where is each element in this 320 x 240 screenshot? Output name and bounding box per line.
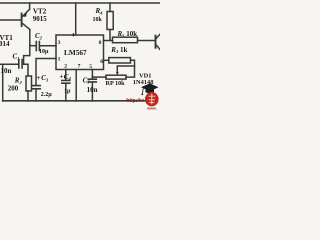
wire C1 input from left edge — [0, 63, 18, 65]
wire C4 to ground — [65, 84, 67, 101]
svg-text:5: 5 — [89, 64, 92, 70]
svg-text:2: 2 — [64, 64, 67, 70]
svg-text:1μ: 1μ — [64, 89, 71, 95]
capacitor C4 — [62, 81, 70, 84]
svg-text:9015: 9015 — [33, 15, 48, 23]
wire bottom ground rail — [3, 100, 150, 102]
wire top supply rail — [0, 2, 160, 4]
wire left edge ground drop — [2, 65, 4, 101]
wire C2 to pin 3 — [40, 45, 56, 47]
wire R5 to VT3 base — [138, 40, 156, 42]
capacitor C3 — [32, 86, 40, 89]
svg-text:014: 014 — [0, 40, 10, 48]
wire C3 to ground — [35, 89, 37, 101]
wire R3 to RP right — [126, 60, 135, 77]
svg-text:10μ: 10μ — [39, 49, 49, 55]
svg-text:2.2μ: 2.2μ — [41, 92, 53, 98]
svg-text:R5 10k: R5 10k — [117, 30, 138, 38]
wire pin 5 down — [91, 70, 93, 78]
wire C2 tap — [30, 45, 36, 47]
wire pin 2 down — [65, 70, 67, 81]
svg-text:8: 8 — [99, 40, 102, 46]
wire rail to R4 — [109, 3, 111, 12]
svg-text:200: 200 — [8, 85, 19, 93]
wire VT2 collector down — [24, 30, 30, 65]
resistor R5 — [113, 37, 138, 43]
svg-text:http://w: http://w — [126, 98, 144, 104]
pin numbers — [58, 32, 104, 70]
capacitor C1 — [19, 60, 22, 69]
resistor R4 — [107, 12, 113, 30]
svg-text:3: 3 — [58, 40, 61, 46]
wire pin 4 to rail — [75, 3, 77, 35]
watermark red seal — [145, 92, 159, 106]
capacitor C5 — [88, 79, 96, 82]
svg-text:+: + — [59, 72, 63, 80]
wire pin 6 out — [104, 59, 109, 61]
wire pin 7 to ground — [75, 70, 77, 102]
svg-text:1: 1 — [58, 57, 61, 63]
watermark graduation cap — [141, 83, 159, 95]
resistor R3 — [109, 58, 131, 63]
potentiometer RP wiper arrowhead — [116, 72, 119, 75]
wire RP wiper connector — [117, 66, 134, 73]
wire pin 8 out — [104, 40, 113, 42]
transistor VT2 emitter arrow — [23, 12, 27, 17]
wire VT2 base from left edge — [0, 19, 21, 21]
transistor VT3 base bar — [155, 36, 157, 48]
labels — [0, 7, 153, 98]
svg-text:6: 6 — [100, 59, 103, 65]
potentiometer RP — [106, 75, 126, 79]
IC U1 LM567 box — [56, 35, 104, 70]
svg-text:7: 7 — [78, 64, 81, 70]
transistor VT2 — [21, 14, 23, 27]
svg-text:10n: 10n — [87, 86, 98, 94]
wire R4 to pin8 net — [109, 30, 111, 41]
svg-text:+: + — [37, 74, 41, 82]
resistor R2 — [26, 76, 32, 91]
svg-text:4: 4 — [72, 32, 75, 38]
svg-text:RP 10k: RP 10k — [106, 80, 126, 87]
wire junction to R2 — [24, 64, 28, 76]
wire R2 to ground — [27, 91, 29, 101]
wire pin5 to RP left — [92, 76, 106, 78]
svg-text:www.: www. — [146, 107, 157, 110]
wire C5 to ground — [91, 82, 93, 101]
svg-text:R3 1k: R3 1k — [110, 46, 127, 54]
svg-text:LM567: LM567 — [64, 48, 87, 57]
svg-text:10k: 10k — [93, 17, 103, 23]
wire pin 1 to C3 — [36, 59, 56, 86]
wire pin5 to C5 — [91, 77, 93, 79]
capacitor C2 — [36, 42, 39, 51]
svg-text:10n: 10n — [1, 67, 12, 75]
